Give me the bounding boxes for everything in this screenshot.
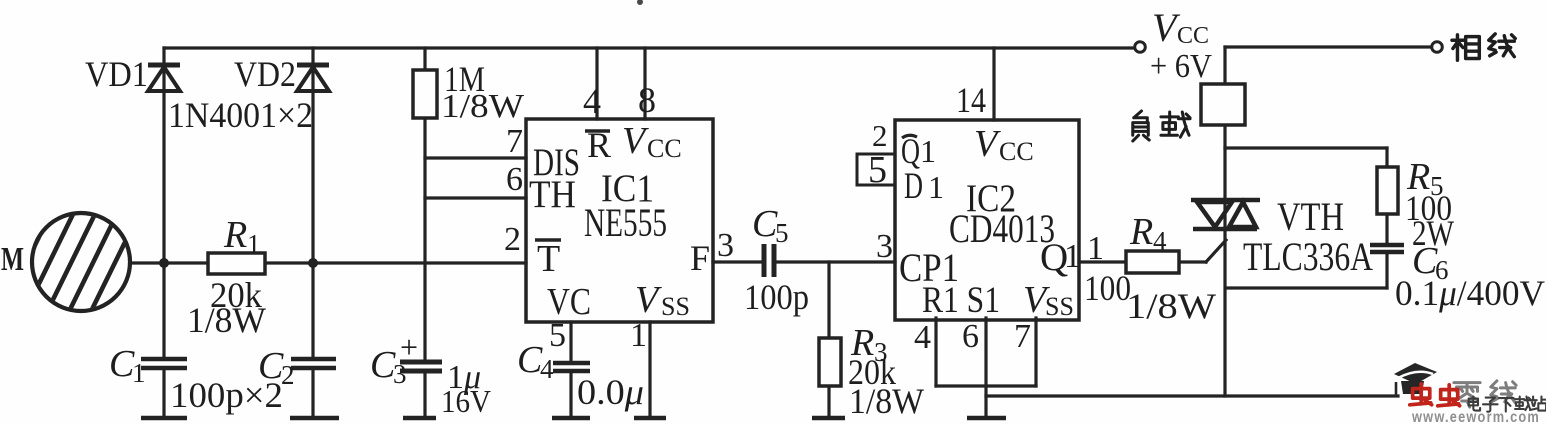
wire IC2 pin 6 vertical to ground [984,318,987,416]
diode VD1 [148,65,180,91]
svg-text:0.1μ/400V: 0.1μ/400V [1395,273,1545,313]
capacitor C5 [764,244,774,277]
svg-text:D: D [904,166,923,207]
node B junction dot (R1/C2/pin2) [308,258,318,268]
resistor 1M [413,70,437,118]
capacitor C6 [1370,245,1404,252]
svg-text:7: 7 [1014,318,1031,355]
wire VD2 vertical branch [311,48,314,357]
svg-text:TLC336A: TLC336A [1243,234,1373,279]
wire IC1 pin 8 [643,48,646,119]
svg-text:SS: SS [1045,292,1074,321]
svg-text:F: F [690,238,710,278]
svg-text:6: 6 [962,318,979,355]
wire load vertical top [1223,47,1226,84]
svg-text:16V: 16V [441,383,491,419]
wire R5 to C6 [1385,214,1388,243]
wire IC1 pin 3 to C5 [713,260,761,263]
svg-text:100p: 100p [744,277,809,317]
wire IC2 pin 4 [934,318,937,386]
triac VTH [1191,200,1260,229]
svg-text:2: 2 [872,118,888,153]
svg-text:1: 1 [247,229,261,259]
svg-text:CC: CC [647,134,682,163]
wire VD1 vertical branch [162,48,165,357]
svg-text:NE555: NE555 [584,200,667,245]
svg-text:TH: TH [529,173,576,216]
wire IC1 pin 5 to C4 [569,322,572,361]
ground C1 [141,416,187,421]
svg-text:www.eeworm.com: www.eeworm.com [1411,409,1540,424]
svg-text:3: 3 [876,228,893,265]
svg-text:1/8W: 1/8W [441,88,525,125]
IC2 CD4013 box [895,120,1079,320]
wire load to triac and bottom rail [1223,125,1226,396]
svg-text:1: 1 [928,169,944,205]
wire IC2 pin 1 to R4 [1079,260,1126,263]
ground C3 [403,416,436,421]
capacitor C1 [141,359,187,368]
ground IC1 pin 1 [634,416,666,421]
svg-text:1: 1 [132,358,146,388]
resistor R4 [1126,251,1179,273]
wire IC2 pin 14 [992,48,995,120]
wire IC2 pin 7 [1034,318,1037,386]
wire IC1 pin 4 [595,48,598,119]
wire 1M branch vertical [423,48,426,70]
svg-text:14: 14 [956,80,986,120]
svg-text:1: 1 [1064,238,1081,275]
svg-text:T: T [537,238,560,280]
svg-text:R1 S1: R1 S1 [922,280,1000,321]
svg-text:5: 5 [775,218,789,248]
svg-text:6: 6 [506,161,523,198]
resistor R5 [1377,167,1398,214]
svg-text:4: 4 [583,81,601,121]
wire C2 bottom lead [311,370,314,416]
wire C6 bottom lead [1385,252,1388,288]
wire bottom rail [986,394,1398,397]
svg-text:0.0μ: 0.0μ [577,372,644,412]
svg-text:VD2: VD2 [234,54,296,94]
svg-text:VTH: VTH [1277,194,1344,239]
wire C3 bottom lead [423,374,426,416]
IC2 D1 feedback tab [857,154,895,185]
wire R3 vertical [827,262,830,338]
watermark graduation cap [1394,363,1437,397]
wire R4 to triac gate [1179,260,1206,263]
svg-text:7: 7 [506,123,523,160]
svg-text:2: 2 [504,221,521,258]
diode VD2 [297,65,329,91]
op-amp U1: IC1 NE555 box [526,119,713,322]
svg-text:1: 1 [920,133,936,169]
wire triac gate diagonal [1206,240,1226,262]
ground C2 [290,416,339,421]
svg-text:5: 5 [868,149,887,191]
svg-text:4: 4 [540,354,554,384]
wire C4 bottom lead [569,373,572,416]
svg-text:3: 3 [717,227,734,264]
wire R1 to pin 2 of IC1 [265,261,526,264]
svg-text:2: 2 [281,360,295,390]
net label: phase line (xiang xian) [1452,35,1479,60]
microphone M [14,196,158,360]
capacitor C3 electrolytic [400,362,442,371]
wire C5 to IC2 pin 3 [776,260,895,263]
wire snubber top branch [1225,146,1387,149]
wire top rail [164,46,1140,49]
ground IC2 pin 6 [967,416,1006,421]
wire IC1 pin 1 vertical [648,322,651,416]
ground C4 [552,416,590,421]
svg-text:SS: SS [661,292,690,321]
svg-text:1: 1 [1087,230,1104,267]
svg-text:V: V [974,123,1001,165]
scan artifact dot [637,0,643,5]
svg-text:+ 6V: + 6V [1150,48,1212,85]
net label: neutral line (ling xian, grey) [1454,383,1480,408]
svg-text:M: M [1,241,24,278]
capacitor C2 [291,359,336,368]
svg-text:8: 8 [638,80,656,120]
capacitor C4 [553,363,590,371]
svg-text:+: + [400,329,418,365]
svg-text:CC: CC [1177,23,1209,49]
svg-text:R: R [223,214,247,256]
wire DIS stub pin 7 [425,156,526,159]
terminal phase line open circle [1432,42,1443,53]
svg-text:1/8W: 1/8W [1126,286,1216,326]
svg-text:R: R [1129,211,1153,253]
wire Vcc rail to load [1225,45,1432,48]
resistor R1 [208,253,265,274]
watermark chong chong (red bugs) [1410,384,1432,405]
svg-text:4: 4 [1153,226,1167,256]
svg-text:VD1: VD1 [85,54,148,94]
svg-text:4: 4 [914,319,931,356]
svg-text:1N4001×2: 1N4001×2 [168,95,313,135]
load box [1201,84,1245,125]
svg-text:CC: CC [999,137,1034,166]
svg-text:V: V [635,279,662,321]
svg-text:V: V [622,120,649,162]
svg-text:1/8W: 1/8W [849,381,924,421]
wire pins 4-6-7 bottom bar [936,384,1036,387]
node A junction dot [159,258,169,268]
wire snubber bottom branch [1226,286,1387,289]
svg-text:VC: VC [547,281,591,323]
ground R3 [812,416,845,421]
svg-text:1/8W: 1/8W [187,300,266,340]
resistor R3 [819,338,841,386]
wire C1 bottom lead [162,370,165,416]
svg-text:100: 100 [1084,268,1131,308]
load label (fu zai) [1133,111,1149,141]
terminal Vcc open circle [1135,42,1146,53]
svg-text:1: 1 [630,317,647,354]
watermark site name (dian zi xia zai zhan) [1469,397,1546,412]
wire TH stub pin 6 [425,196,526,199]
wire M to node A [130,261,208,264]
